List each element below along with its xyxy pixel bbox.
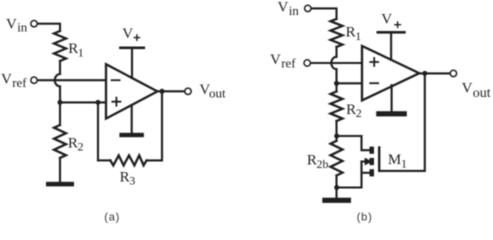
wire +node to op-amp non-inverting input bbox=[60, 101, 106, 103]
svg-text:V: V bbox=[278, 0, 289, 16]
svg-text:V: V bbox=[270, 52, 281, 68]
svg-text:V: V bbox=[6, 16, 17, 32]
wire op-amp to ground (b) bbox=[391, 85, 393, 111]
transistor M1 gate plate bbox=[378, 148, 380, 171]
wire hop to minus node (b) bbox=[335, 69, 337, 91]
wire R2b to ground (b) bbox=[335, 176, 337, 198]
resistor R2 (b) bbox=[331, 92, 343, 122]
resistor R1 (b) bbox=[331, 19, 343, 47]
node: +input junction (a) bbox=[58, 100, 63, 105]
node: output junction (b) bbox=[422, 71, 427, 76]
svg-text:1: 1 bbox=[355, 29, 361, 43]
wire Vin to R1 top (a) bbox=[37, 24, 60, 31]
node: R2b/ground junction (b) bbox=[334, 185, 339, 190]
V+ supply bar (b) bbox=[378, 31, 405, 34]
svg-text:V: V bbox=[381, 12, 392, 28]
op-amp U2 triangle (b) bbox=[362, 46, 419, 101]
wire R2 to R2b bbox=[335, 121, 337, 141]
resistor R1 bbox=[54, 31, 66, 61]
resistor R2 bbox=[54, 125, 66, 158]
terminal Vref (b) bbox=[304, 60, 310, 66]
wire +node to R3 left bbox=[97, 102, 99, 160]
op-amp U1 triangle bbox=[106, 64, 157, 118]
svg-text:M: M bbox=[388, 152, 401, 168]
wire +node down to R2 bbox=[59, 102, 61, 125]
terminal circles bbox=[31, 5, 457, 94]
svg-text:R: R bbox=[68, 135, 78, 151]
svg-text:2b: 2b bbox=[317, 157, 329, 171]
ground under R2 bbox=[46, 182, 74, 187]
wire minus node to op-amp inverting input (b) bbox=[337, 82, 363, 84]
svg-text:R: R bbox=[307, 152, 317, 168]
svg-text:R: R bbox=[346, 102, 356, 118]
op-amp U1 minus sign bbox=[112, 79, 120, 81]
terminal Vout (a) bbox=[185, 88, 191, 94]
wire Vref to op-amp non-inverting input (b) bbox=[310, 62, 362, 64]
terminal Vin (a) bbox=[31, 21, 37, 27]
wire R1 bottom to hop bbox=[59, 61, 61, 74]
svg-text:in: in bbox=[17, 20, 28, 35]
wire bottom node to M1 source and bulk bbox=[337, 162, 365, 188]
terminal Vout (b) bbox=[450, 70, 456, 76]
op-amp U2 plus sign bbox=[370, 58, 378, 66]
node: minus input junction (b) bbox=[334, 81, 339, 86]
resistor R3 bbox=[110, 155, 146, 165]
wire Vref to op-amp inverting input bbox=[37, 79, 106, 81]
svg-text:1: 1 bbox=[401, 156, 407, 170]
svg-text:out: out bbox=[473, 86, 491, 101]
wire op-amp output to Vout terminal (b) bbox=[419, 72, 450, 74]
wire V+ to op-amp top (b) bbox=[390, 34, 392, 60]
node: output junction (a) bbox=[160, 89, 165, 94]
wire hop to +node bbox=[59, 86, 61, 102]
plus subscript of V+ (b) bbox=[394, 21, 401, 28]
transistor M1 channel segments bbox=[370, 147, 375, 177]
wire node to M1 drain bbox=[337, 136, 370, 150]
svg-text:ref: ref bbox=[12, 75, 27, 90]
node: R3 tap junction (a) bbox=[96, 100, 101, 105]
wire R2 to ground bbox=[59, 158, 61, 182]
transistor M1 bulk arrow bbox=[365, 158, 373, 166]
wire to R3 bbox=[98, 159, 110, 161]
svg-text:ref: ref bbox=[281, 56, 296, 71]
wire op-amp output to Vout terminal bbox=[157, 90, 184, 92]
plus subscript of V+ (a) bbox=[134, 34, 141, 41]
svg-text:in: in bbox=[289, 3, 300, 18]
M1 source stub bbox=[362, 172, 370, 174]
terminal Vref (a) bbox=[31, 77, 37, 83]
svg-text:R: R bbox=[68, 41, 78, 57]
terminal Vin (b) bbox=[305, 5, 311, 11]
svg-text:V: V bbox=[122, 26, 133, 42]
node: R2/R2b junction (b) bbox=[334, 134, 339, 139]
svg-text:3: 3 bbox=[129, 174, 135, 188]
svg-text:2: 2 bbox=[78, 140, 84, 154]
op-amp U1 plus sign bbox=[112, 98, 120, 106]
wire V+ to op-amp top bbox=[131, 49, 133, 78]
wire R1 to hop (b) bbox=[335, 47, 337, 57]
svg-text:out: out bbox=[209, 85, 226, 100]
wire crossover hop over Vref line bbox=[55, 74, 60, 86]
svg-text:R: R bbox=[120, 169, 130, 185]
wire Vin to R1 top (b) bbox=[311, 8, 336, 19]
svg-text:V: V bbox=[462, 81, 473, 97]
wire R3 right up to output bbox=[147, 91, 162, 160]
resistor R2b bbox=[331, 141, 343, 176]
svg-text:R: R bbox=[346, 25, 356, 41]
wire M1 gate to output feedback bbox=[379, 73, 425, 170]
ground under chain (b) bbox=[322, 198, 351, 203]
op-amp U2 minus sign bbox=[370, 82, 378, 84]
ground under op-amp (a) bbox=[119, 133, 143, 137]
V+ supply bar (a) bbox=[120, 46, 143, 49]
svg-text:V: V bbox=[1, 71, 12, 87]
svg-text:2: 2 bbox=[356, 106, 362, 120]
wire op-amp to ground (a) bbox=[131, 105, 133, 133]
svg-text:(b): (b) bbox=[357, 212, 373, 224]
svg-text:1: 1 bbox=[78, 45, 84, 59]
wire crossover hop over Vref line (b) bbox=[331, 57, 336, 69]
ground under op-amp (b) bbox=[376, 111, 407, 116]
svg-text:(a): (a) bbox=[104, 212, 120, 224]
